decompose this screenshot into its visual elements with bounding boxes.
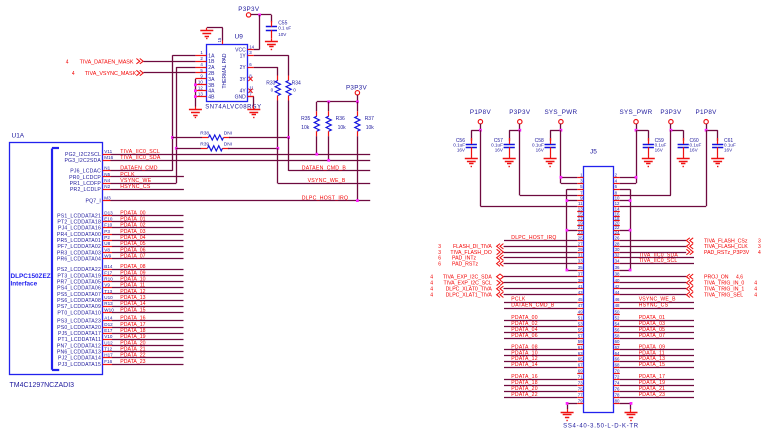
U1A pin T13 PS5_LCDDATA07 / wire PDATA_12 [57, 289, 183, 298]
node U9 pin10 junction [194, 83, 197, 86]
svg-text:4: 4 [66, 59, 69, 65]
U9 pin 14 VCC [235, 44, 255, 53]
wire PDATA_23 to J5 pin 78 [620, 392, 694, 398]
svg-text:43: 43 [578, 290, 583, 295]
svg-text:PDATA_03: PDATA_03 [120, 229, 145, 235]
wire R37 to DLPC_HOST_IRQ [357, 136, 359, 200]
svg-text:78: 78 [615, 392, 620, 397]
svg-text:R13: R13 [104, 301, 113, 306]
wire DLPC_HOST_IRQ [111, 195, 371, 201]
svg-text:PDATA_04: PDATA_04 [120, 235, 145, 241]
J5 pin 38 stub [613, 272, 620, 277]
node R35 SCL junction [315, 153, 318, 156]
wire PDATA_01 to J5 pin 52 [620, 315, 694, 321]
U1A pin A14 PS3_LCDDATA23 / wire PDATA_16 [57, 316, 183, 325]
node J5 pin21 junction [566, 229, 569, 232]
power symbol P3P3V at x=520 [509, 109, 531, 130]
svg-text:16V: 16V [495, 147, 504, 152]
J5 pin 68 stub [613, 362, 620, 367]
node J5 pin10 junction [629, 199, 632, 202]
svg-text:52: 52 [615, 316, 620, 321]
svg-text:DATAEN_CMD: DATAEN_CMD [120, 166, 157, 172]
port DLPC_XLAT0_TIVA to J5 pin 41 [430, 286, 577, 293]
svg-text:DLPC150ZEZ: DLPC150ZEZ [11, 273, 51, 280]
svg-text:10k: 10k [301, 125, 310, 131]
wire U9 2Y to R33 [254, 67, 278, 75]
svg-text:VSYNC_WE_B: VSYNC_WE_B [308, 178, 346, 184]
svg-text:16V: 16V [690, 147, 699, 152]
wire PDATA_11 to J5 pin 64 [620, 350, 694, 356]
svg-text:PDATA_13: PDATA_13 [120, 295, 145, 301]
wire PDATA_12 to J5 pin 65 [504, 356, 577, 362]
svg-text:10V: 10V [278, 32, 287, 37]
J5 pin 21 stub [577, 225, 583, 230]
U1A pin E10 PT2_LCDDATA18 / wire PDATA_01 [57, 217, 183, 226]
wire R33 to VSYNC_WE_B [277, 101, 279, 149]
svg-text:57: 57 [578, 333, 583, 338]
resistor R36 10k [326, 102, 346, 136]
U9 pin 13 4B [195, 91, 215, 100]
svg-text:E10: E10 [104, 217, 113, 222]
wire PDATA_04 to J5 pin 55 [504, 327, 577, 333]
J5 pin 8 stub [613, 190, 619, 195]
U1A pin R13 PS7_LCDDATA09 / wire PDATA_14 [57, 301, 183, 310]
svg-text:11: 11 [578, 201, 583, 206]
capacitor C57 0.1uF 16V [491, 138, 515, 156]
svg-text:PDATA_22: PDATA_22 [511, 392, 537, 398]
wire PDATA_17 to J5 pin 72 [620, 374, 694, 380]
svg-text:R36: R36 [336, 116, 345, 122]
J5 pin 63 stub [577, 351, 583, 356]
svg-text:P1P8V: P1P8V [470, 109, 492, 116]
U1A pin W9 PR6_LCDDATA04 / wire PDATA_07 [57, 254, 184, 263]
capacitor C58 0.1uF 16V [532, 138, 556, 156]
J5 pin 42 stub [613, 284, 620, 289]
svg-text:PF7_LCDDATA02: PF7_LCDDATA02 [57, 244, 101, 250]
J5 pin 40 stub [613, 278, 620, 283]
port PAD_RSTz to J5 pin 33 [438, 261, 577, 268]
svg-text:U12: U12 [104, 340, 113, 345]
wire DATAEN_CMD_B to J5 pin 47 [504, 303, 577, 309]
wire P3P3V to C60 [671, 130, 684, 141]
svg-text:PDATA_18: PDATA_18 [120, 328, 145, 334]
svg-text:10: 10 [198, 80, 203, 85]
wire PDATA_16 to J5 pin 71 [504, 374, 577, 380]
J5 pin 4 stub [613, 178, 619, 183]
svg-text:TIVA_EXP_I2C_SDA: TIVA_EXP_I2C_SDA [443, 275, 492, 281]
svg-text:T13: T13 [104, 289, 112, 294]
svg-text:P3P3V: P3P3V [660, 109, 682, 116]
svg-text:47: 47 [578, 303, 583, 308]
J5 pin 33 stub [577, 259, 583, 264]
port FLASH_DI_TIVA to J5 pin 27 [438, 244, 577, 251]
no-connect X on U9 pin 8 3Y [248, 77, 252, 81]
svg-text:28: 28 [615, 241, 620, 246]
J5 pin 14 stub [613, 207, 620, 212]
U1A pin M3 PQ7_I [86, 195, 112, 204]
svg-text:DNI: DNI [224, 131, 232, 137]
J5 pin 6 stub [613, 184, 619, 189]
J5 pin 11 stub [577, 201, 583, 206]
svg-text:69: 69 [578, 368, 583, 373]
wire DATAEN_CMD [111, 166, 173, 172]
wire PDATA_19 to J5 pin 74 [620, 380, 694, 386]
J5 pin 50 stub [613, 310, 620, 315]
input port TIVA_VSYNC_MASK [72, 70, 143, 77]
svg-text:61: 61 [578, 345, 583, 350]
svg-text:D13: D13 [104, 210, 113, 215]
U1A pin W10 PT0_LCDDATA10 / wire PDATA_15 [57, 307, 183, 316]
svg-text:A14: A14 [104, 316, 113, 321]
svg-text:75: 75 [578, 387, 583, 392]
svg-text:2Y: 2Y [240, 65, 247, 71]
U1A pin V8 PR3_LCDDATA03 / wire PDATA_06 [57, 247, 184, 256]
svg-text:PR0_LCDCP: PR0_LCDCP [69, 175, 101, 181]
svg-text:66: 66 [615, 357, 620, 362]
op-amp U9 quad AND gate SN74ALVC08RGY body [205, 34, 261, 111]
ground at C59 [642, 155, 655, 166]
wire DATAEN_CMD vertical to U9 1A [172, 55, 195, 171]
J5 pin 24 stub [613, 230, 620, 235]
svg-text:PS2_LCDDATA22: PS2_LCDDATA22 [57, 267, 101, 273]
J5 pin 26 stub [613, 236, 620, 241]
U1A pin N5 PR0_LCDCP [69, 172, 111, 181]
port TIVA_TRIG_IN_0 to J5 pin 40 [620, 280, 757, 287]
svg-text:V11: V11 [104, 149, 112, 154]
svg-text:63: 63 [578, 351, 583, 356]
U1A pin F16 PJ3_LCDDATA15 / wire PDATA_23 [58, 359, 184, 368]
svg-text:PDATA_20: PDATA_20 [120, 340, 145, 346]
U1A pin B14 PS2_LCDDATA22 / wire PDATA_08 [57, 264, 183, 273]
capacitor C59 0.1uF 16V [643, 138, 667, 156]
svg-text:V8: V8 [104, 247, 110, 252]
svg-text:PJ2_LCDDATA14: PJ2_LCDDATA14 [58, 356, 101, 362]
U9 pin 3 1Y [240, 50, 254, 59]
svg-text:N4: N4 [104, 178, 110, 183]
svg-text:4: 4 [758, 250, 761, 256]
J5 pin 1 stub [577, 172, 583, 177]
svg-text:TIVA_IIC0_SCL: TIVA_IIC0_SCL [639, 258, 678, 264]
svg-text:29: 29 [578, 247, 583, 252]
U9 pin 5 2B [195, 68, 215, 77]
svg-text:51: 51 [578, 316, 583, 321]
J5 pin 43 stub [577, 290, 583, 295]
J5 pin 35 stub [577, 265, 583, 271]
J5 pin 78 stub [613, 392, 620, 397]
J5 pin 41 stub [577, 284, 583, 289]
svg-text:16V: 16V [457, 147, 466, 152]
port TIVA_FLASH_DO to J5 pin 29 [438, 249, 577, 256]
svg-text:PDATA_17: PDATA_17 [120, 322, 145, 328]
J5 pin 58 stub [613, 333, 620, 338]
wire U9 1Y to R34 [254, 55, 289, 75]
svg-text:PDATA_06: PDATA_06 [511, 333, 537, 339]
U1A pin V10 PT1_LCDDATA11 / wire PDATA_19 [58, 334, 184, 343]
svg-text:26: 26 [615, 236, 620, 241]
svg-text:PDATA_16: PDATA_16 [120, 316, 145, 322]
svg-text:M16: M16 [104, 155, 113, 160]
wire R34 to DATAEN_CMD_B [288, 101, 290, 138]
J5 pin 12 stub [613, 201, 620, 206]
ground at J5 pin 80 [625, 409, 638, 421]
J5 pin 39 stub [577, 278, 583, 283]
svg-text:N1: N1 [104, 166, 110, 171]
port TIVA_FLASH_CSz to J5 pin 26 [620, 238, 761, 245]
svg-text:TIVA_TRIG_SEL: TIVA_TRIG_SEL [704, 293, 743, 299]
J5 pin 22 stub [613, 225, 620, 230]
svg-text:72: 72 [615, 375, 620, 380]
wire P3P3V rail to C55 [251, 14, 272, 16]
wire R36 to SDA [328, 136, 330, 160]
svg-text:F17: F17 [104, 270, 112, 275]
svg-text:44: 44 [615, 290, 620, 295]
wire PDATA_15 to J5 pin 68 [620, 362, 694, 368]
J5 pin 55 stub [577, 328, 583, 333]
J5 pin 17 stub [577, 216, 583, 221]
svg-text:D12: D12 [104, 322, 113, 327]
svg-text:73: 73 [578, 381, 583, 386]
U9 pin 8 3Y [240, 74, 253, 83]
svg-text:41: 41 [578, 284, 583, 289]
port PAD_RSTz_P3P3V to J5 pin 30 [620, 249, 761, 256]
J5 pin 15 stub [577, 211, 583, 216]
J5 pin 54 stub [613, 322, 620, 327]
svg-text:59: 59 [578, 339, 583, 344]
J5 pin 32 stub [613, 253, 620, 258]
node C60 junction [670, 129, 673, 132]
svg-text:PR5_LCDDATA01: PR5_LCDDATA01 [57, 238, 101, 244]
svg-text:R10: R10 [104, 276, 113, 281]
wire PDATA_02 to J5 pin 53 [504, 321, 577, 327]
node R37 IRQ junction [356, 199, 359, 202]
wire SYS_PWR to J5 pins 2 4 [620, 130, 637, 183]
wire VSYNC_WE_B [278, 148, 371, 184]
J5 pin 74 stub [613, 381, 620, 386]
U1A pin V9 PS4_LCDDATA06 / wire PDATA_11 [57, 283, 183, 292]
node C56 junction [479, 129, 482, 132]
wire DATAEN_CMD_B [289, 138, 371, 172]
capacitor C56 0.1uF 16V [453, 138, 477, 156]
J5 pin 34 stub [613, 259, 620, 264]
wire P1P8V to C56 [471, 130, 480, 141]
power symbol P3P3V top-left [238, 6, 260, 17]
svg-text:PJ3_LCDDATA15: PJ3_LCDDATA15 [58, 362, 101, 368]
svg-text:PROJ_ON: PROJ_ON [704, 275, 729, 281]
svg-text:PDATA_12: PDATA_12 [120, 289, 145, 295]
port TIVA_TRIG_IN_1 to J5 pin 42 [620, 286, 757, 293]
resistor R35 10k [301, 102, 319, 136]
node U9 pin13 junction [194, 95, 197, 98]
svg-text:12: 12 [615, 201, 620, 206]
svg-text:P3: P3 [104, 229, 110, 234]
svg-text:VSYNC_WE: VSYNC_WE [120, 178, 151, 184]
svg-text:1Y: 1Y [240, 53, 247, 59]
svg-text:SYS_PWR: SYS_PWR [544, 109, 577, 116]
svg-text:64: 64 [615, 351, 620, 356]
wire PDATA_22 to J5 pin 77 [504, 392, 577, 398]
svg-text:4,6: 4,6 [736, 275, 743, 281]
U1A pin F17 PT3_LCDDATA19 / wire PDATA_09 [57, 270, 183, 279]
svg-text:TIVA_IIC0_SDA: TIVA_IIC0_SDA [120, 155, 161, 161]
svg-text:14: 14 [249, 44, 254, 49]
U9 pin 4 2A [195, 62, 215, 71]
svg-text:N2: N2 [104, 184, 110, 189]
svg-text:PG3_I2C2SDA: PG3_I2C2SDA [64, 158, 101, 164]
wire PDATA_08 to J5 pin 61 [504, 344, 577, 350]
ground at U9 thermal pad [200, 28, 213, 39]
node C57 junction [518, 129, 521, 132]
power symbol SYS_PWR at x=636 [620, 109, 653, 130]
J5 pin 52 stub [613, 316, 620, 321]
U1A pin M16 PG3_I2C2SDA [64, 155, 113, 164]
J5 pin 19 stub [577, 221, 583, 226]
svg-text:35: 35 [578, 265, 583, 270]
J5 pin 70 stub [613, 368, 620, 373]
svg-text:V9: V9 [104, 283, 110, 288]
U9 pin 7 GND [235, 91, 254, 100]
svg-text:PS0_LCDDATA20: PS0_LCDDATA20 [57, 325, 101, 331]
svg-text:PS4_LCDDATA06: PS4_LCDDATA06 [57, 286, 101, 292]
wire R35 to SCL [316, 136, 318, 154]
node C61 junction [705, 129, 708, 132]
J5 pin 5 stub [577, 184, 583, 189]
svg-text:PCLK: PCLK [120, 172, 135, 178]
U9 pin 15 thermal pad wire [207, 28, 223, 45]
J5 pin 28 stub [613, 241, 620, 246]
ground at C56 [465, 155, 478, 166]
svg-text:56: 56 [615, 328, 620, 333]
svg-text:DNI: DNI [224, 141, 232, 147]
svg-text:M3: M3 [104, 195, 111, 200]
svg-text:W9: W9 [104, 254, 111, 259]
svg-text:31: 31 [578, 253, 583, 258]
port TIVA_EXP_I2C_SCL to J5 pin 39 [430, 280, 577, 287]
U1A pin F10 PJ4_LCDDATA16 / wire PDATA_02 [58, 223, 184, 232]
svg-text:B14: B14 [104, 264, 113, 269]
svg-text:TIVA_DATAEN_MASK: TIVA_DATAEN_MASK [80, 59, 134, 65]
J5 pin 18 stub [613, 216, 620, 221]
svg-text:R34: R34 [292, 80, 301, 86]
node C58 junction [560, 129, 563, 132]
svg-text:DATAEN_CMD_B: DATAEN_CMD_B [302, 166, 347, 172]
svg-text:R33: R33 [266, 80, 275, 86]
svg-text:74: 74 [615, 381, 620, 386]
J5 pin 56 stub [613, 328, 620, 333]
U9 pin 10 3B [195, 80, 215, 89]
svg-text:PT3_LCDDATA19: PT3_LCDDATA19 [57, 273, 101, 279]
svg-text:W10: W10 [104, 307, 114, 312]
node P3P3V VCC junction [258, 14, 261, 17]
wire PDATA_03 to J5 pin 54 [620, 321, 694, 327]
svg-text:PR2_LCDLP: PR2_LCDLP [70, 187, 101, 193]
svg-text:38: 38 [615, 272, 620, 277]
svg-text:30: 30 [615, 247, 620, 252]
J5 pin 25 stub [577, 236, 583, 241]
ground at U9 GND [247, 106, 260, 117]
input port TIVA_DATAEN_MASK [66, 59, 144, 66]
U1A pin V11 PG2_I2C2SCL [65, 149, 113, 158]
svg-text:TIVA_IIC0_SCL: TIVA_IIC0_SCL [120, 149, 160, 155]
wire TIVA_IIC0_SCL [111, 149, 371, 155]
J5 pin 7 stub [577, 190, 583, 195]
svg-text:34: 34 [615, 259, 620, 264]
svg-text:V10: V10 [104, 334, 113, 339]
svg-text:25: 25 [578, 236, 583, 241]
svg-text:6: 6 [438, 262, 441, 268]
node C59 junction [635, 129, 638, 132]
svg-text:U8: U8 [104, 241, 110, 246]
J5 pin 48 stub [613, 303, 620, 309]
port TIVA_TRIG_SEL to J5 pin 44 [620, 292, 757, 299]
J5 pin 13 stub [577, 207, 583, 212]
port TIVA_EXP_I2C_SDA to J5 pin 37 [430, 274, 577, 281]
J5 pin 67 stub [577, 362, 583, 367]
svg-text:PDATA_14: PDATA_14 [511, 362, 537, 368]
svg-text:U10: U10 [104, 295, 113, 300]
wire P1P8V to J5 pin 11 [480, 130, 577, 206]
svg-text:R35: R35 [301, 116, 310, 122]
node rail R36 junction [327, 100, 330, 103]
svg-text:39: 39 [578, 278, 583, 283]
svg-text:SS4-40-3.50-L-D-K-TR: SS4-40-3.50-L-D-K-TR [563, 424, 639, 430]
svg-text:16V: 16V [724, 147, 733, 152]
svg-text:PR4_LCDDATA00: PR4_LCDDATA00 [57, 232, 101, 238]
J5 pin 57 stub [577, 333, 583, 338]
power symbol SYS_PWR at x=561 [544, 109, 577, 130]
U1A pin U10 PS6_LCDDATA08 / wire PDATA_13 [57, 295, 183, 304]
U9 pin 9 3A [195, 74, 215, 83]
J5 pin 20 stub [613, 221, 620, 226]
J5 pin 49 stub [577, 310, 583, 315]
svg-text:P1P8V: P1P8V [696, 109, 718, 116]
node J5 pin36 junction [629, 269, 632, 272]
J5 pin 79 stub [577, 398, 583, 403]
J5 pin 77 stub [577, 392, 583, 397]
svg-text:3Y: 3Y [240, 77, 247, 83]
J5 pin 75 stub [577, 387, 583, 392]
svg-text:PDATA_19: PDATA_19 [120, 334, 145, 340]
J5 pin 37 stub [577, 272, 583, 277]
svg-text:10k: 10k [366, 125, 375, 131]
node J5 pin22 junction [629, 229, 632, 232]
J5 pin 64 stub [613, 351, 620, 356]
svg-text:40: 40 [615, 278, 620, 283]
wire J5 pin 80 to ground [620, 403, 631, 409]
wire PDATA_13 to J5 pin 66 [620, 356, 694, 362]
wire HSYNC_CS [111, 184, 184, 190]
svg-text:F10: F10 [104, 223, 112, 228]
svg-text:67: 67 [578, 362, 583, 367]
svg-text:U9: U9 [235, 34, 244, 41]
svg-text:PDATA_23: PDATA_23 [120, 359, 145, 365]
node R36 SDA junction [327, 159, 330, 162]
svg-text:PT1_LCDDATA11: PT1_LCDDATA11 [58, 337, 101, 343]
svg-text:THERMAL PAD: THERMAL PAD [222, 53, 228, 88]
svg-text:DLPC_XLAT1_TIVA: DLPC_XLAT1_TIVA [446, 293, 493, 299]
wire PDATA_14 to J5 pin 67 [504, 362, 577, 368]
svg-text:60: 60 [615, 339, 620, 344]
svg-text:PAD_RSTz_P3P3V: PAD_RSTz_P3P3V [704, 250, 750, 256]
power symbol P3P3V at x=671 [660, 109, 682, 130]
wire PDATA_05 to J5 pin 56 [620, 327, 694, 333]
svg-text:0.1 uF: 0.1 uF [278, 26, 291, 31]
svg-text:TIVA_VSYNC_MASK: TIVA_VSYNC_MASK [85, 71, 137, 77]
svg-text:PDATA_08: PDATA_08 [120, 264, 145, 270]
svg-text:R38: R38 [200, 131, 209, 137]
J5 pin 61 stub [577, 345, 583, 350]
svg-text:DATAEN_CMD_B: DATAEN_CMD_B [511, 303, 555, 309]
svg-text:54: 54 [615, 322, 620, 327]
